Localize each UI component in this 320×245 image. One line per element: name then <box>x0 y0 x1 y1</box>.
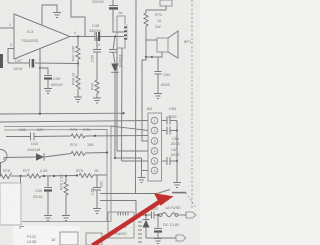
pin 5 wire to ground <box>42 5 57 26</box>
capacitor C58 .022 <box>96 175 98 187</box>
wire to off-page <box>146 237 176 239</box>
output wire pin 4 <box>70 36 124 38</box>
wire white box <box>20 176 22 183</box>
ground <box>44 216 52 221</box>
wire pin0 to ground <box>122 160 149 162</box>
node <box>77 62 79 64</box>
wire <box>176 121 178 183</box>
zener diode D45 <box>145 215 147 219</box>
switch S1 <box>100 193 157 195</box>
speaker BP1 <box>146 39 157 41</box>
node C47 branch <box>39 67 41 69</box>
resistor R71 10 2W <box>160 0 172 6</box>
wire pin1 <box>142 170 149 172</box>
supply wire <box>71 0 85 37</box>
rail B <box>0 121 148 123</box>
ground <box>53 13 61 18</box>
wire pin3 <box>117 150 148 152</box>
ground <box>93 209 101 214</box>
pin 2 wire <box>8 49 14 64</box>
capacitor C51 <box>109 50 117 53</box>
pin 1 wire <box>0 27 14 29</box>
node <box>114 35 116 37</box>
ground <box>154 239 162 244</box>
blank module box <box>0 183 21 225</box>
wire lower <box>100 201 136 216</box>
ground <box>44 89 52 94</box>
off-page connector DC <box>186 212 196 218</box>
rail A <box>0 112 124 115</box>
module box P1 <box>60 232 78 245</box>
ground <box>74 97 82 102</box>
connector S12 module <box>108 212 134 238</box>
node <box>77 35 79 37</box>
capacitor C? <box>157 215 159 228</box>
capacitor C50 .1 <box>96 37 98 50</box>
ground <box>93 98 101 103</box>
wire <box>116 48 118 151</box>
diode D44 1N4003 <box>113 37 115 64</box>
connector pins right <box>138 222 142 242</box>
op-amp IC3 TDA2003 <box>14 14 70 59</box>
capacitor C47 10/16 wire <box>8 62 78 65</box>
resistor R47 22R <box>77 37 79 47</box>
shield box edge <box>4 126 111 222</box>
wire down from C47 node <box>39 68 41 114</box>
ground <box>138 178 146 183</box>
ground <box>62 216 70 221</box>
ground <box>154 94 162 99</box>
dashed net boundary <box>191 0 193 210</box>
resistor R49 <box>95 80 99 93</box>
off-page connector 2 <box>176 235 186 241</box>
capacitor C59 22/16 <box>47 176 49 187</box>
connector edge at left <box>0 54 3 68</box>
wire <box>121 48 124 161</box>
wire vertical long <box>135 0 138 194</box>
bottom module box <box>86 233 102 245</box>
resistor R76 2.2K <box>65 176 67 182</box>
pin 3 stub <box>39 49 41 64</box>
resistor R48 22 <box>77 64 79 77</box>
capacitor C49 600/16 <box>44 75 52 77</box>
white area bottom <box>13 226 80 245</box>
node <box>145 214 147 216</box>
red annotation arrow <box>93 193 174 245</box>
node <box>145 56 147 58</box>
node <box>151 56 153 58</box>
wire to J63 <box>142 57 148 141</box>
capacitor C64 .0033 <box>152 57 158 71</box>
wire pin2 <box>115 158 142 177</box>
microphone M1 <box>0 150 7 163</box>
ground <box>173 183 181 188</box>
